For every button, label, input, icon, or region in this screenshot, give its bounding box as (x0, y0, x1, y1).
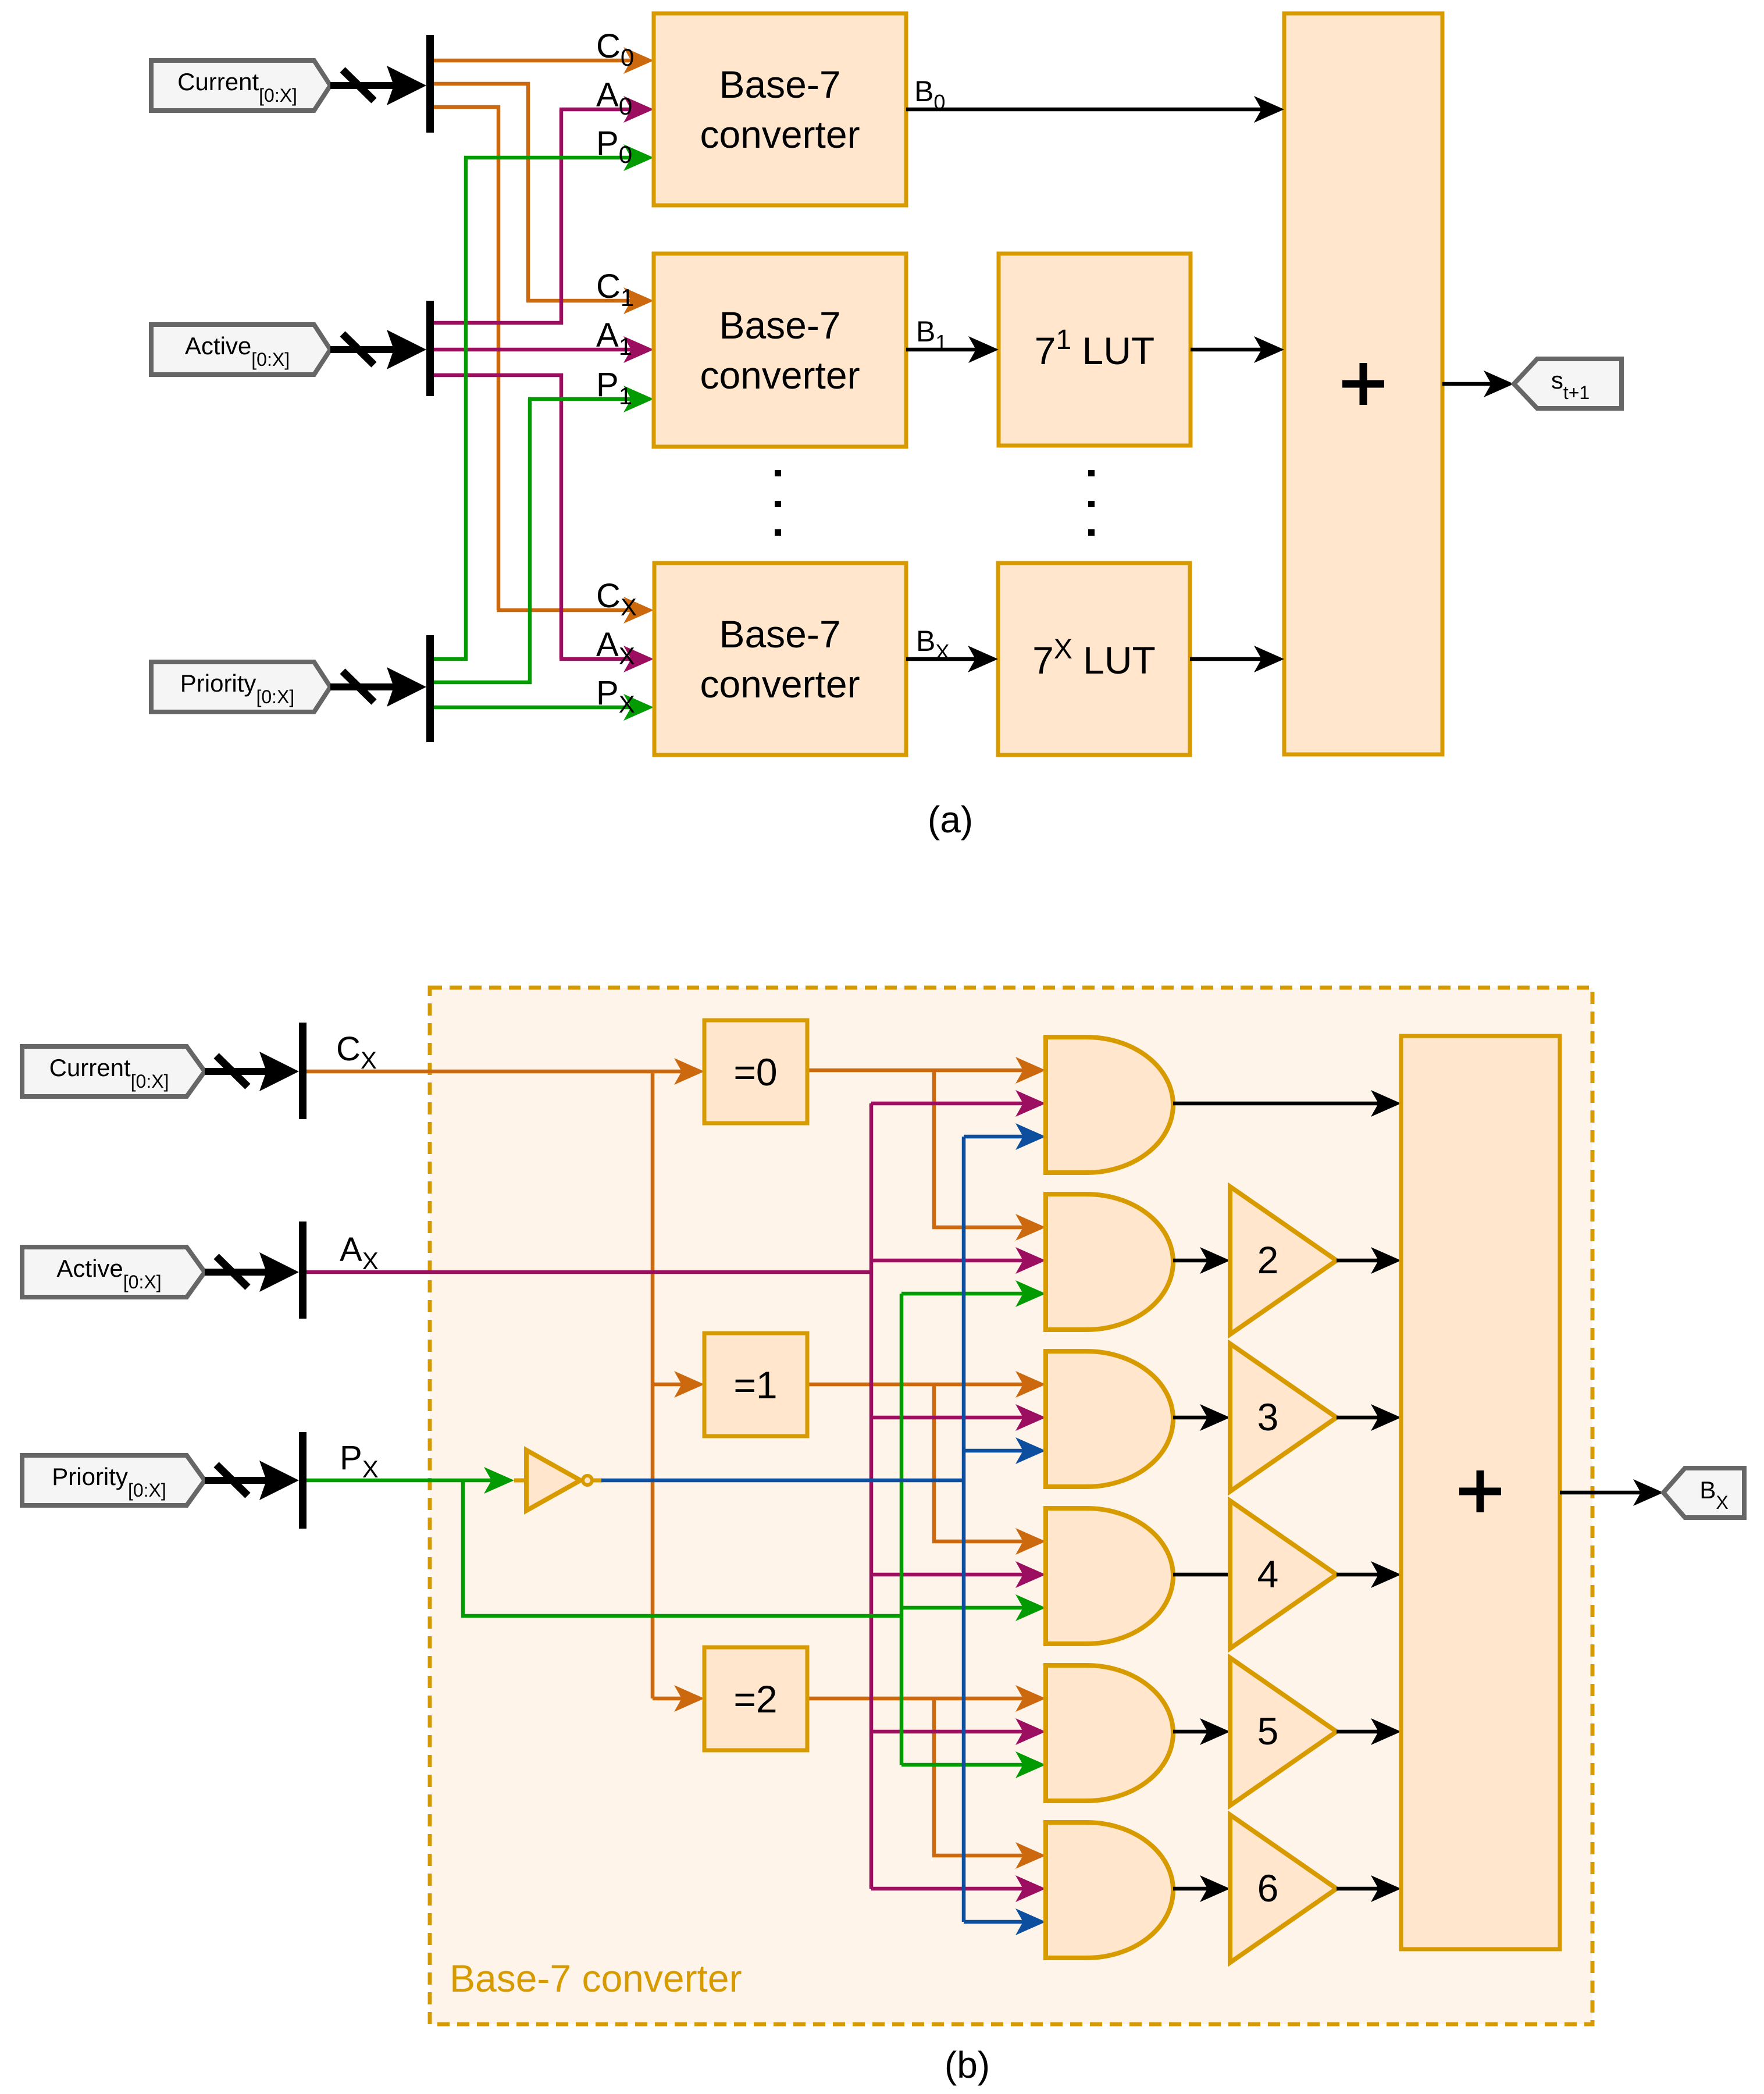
wire AX branch to AND6 (871, 1887, 1025, 1891)
block 7^X LUT (998, 563, 1190, 755)
wire P0 segment (434, 158, 466, 659)
wire PX to NOT gate (307, 1479, 493, 1483)
svg-text:Base-7: Base-7 (719, 63, 840, 106)
wire PX branch to AND4 (901, 1606, 1025, 1610)
wire B1 to LUT1 (906, 348, 978, 352)
wire AX segment (434, 375, 561, 659)
wire =2 out to AND5 (807, 1697, 1025, 1701)
wire C1 segment (434, 84, 528, 301)
wire notP branch to AND1 (964, 1135, 1025, 1139)
wire notP vertical distribution (962, 1137, 966, 1922)
AND gate 3 (1046, 1351, 1173, 1487)
bus bar Current (b) (299, 1023, 307, 1119)
buffer x6 (1230, 1815, 1337, 1963)
bus arrow Priority (a) (330, 683, 398, 690)
svg-text:4: 4 (1257, 1552, 1279, 1596)
wire CX segment (434, 107, 498, 610)
block Base-7 converter X (a) (654, 563, 906, 755)
NOT gate (inverter) (514, 1479, 526, 1483)
wire buffer5 out to adder (1337, 1730, 1380, 1734)
block Base-7 converter 0 (a) (654, 13, 906, 205)
wire =1 branch to AND4 (932, 1384, 936, 1541)
wire =1 out to AND3 (807, 1383, 1025, 1387)
wire =0 branch to AND2 (932, 1070, 936, 1227)
input tag Priority[0:X] (b) (22, 1455, 205, 1505)
svg-text:converter: converter (700, 663, 860, 706)
comparator =1 (704, 1333, 807, 1436)
output tag s_t+1 (1514, 359, 1622, 408)
svg-text:converter: converter (700, 113, 860, 156)
bus bar Active (a) (426, 301, 434, 396)
block adder (a) (1284, 13, 1442, 754)
wire PX branch to AND5 (901, 1763, 1025, 1767)
wire AND6 out to buffer6 (1173, 1887, 1209, 1891)
wire PX (434, 706, 633, 710)
input tag Priority[0:X] (a) (151, 662, 330, 712)
wire AND1 out to adder (1173, 1102, 1380, 1106)
ellipsis dots converters (775, 470, 781, 476)
wire =0 out to AND1 (807, 1069, 1025, 1073)
bus arrow Priority (b) (205, 1477, 271, 1484)
svg-text:Base-7 converter: Base-7 converter (450, 1957, 742, 2000)
buffer x4 (1230, 1501, 1337, 1648)
wire AX branch to AND3 (871, 1416, 1025, 1420)
svg-text:Base-7: Base-7 (719, 304, 840, 347)
input tag Current[0:X] (a) (151, 60, 330, 111)
svg-text:=1: =1 (733, 1363, 777, 1406)
svg-text:71 LUT: 71 LUT (1035, 325, 1154, 372)
wire CX branch down to =2 (651, 1384, 655, 1698)
input tag Current[0:X] (b) (22, 1046, 205, 1096)
wire AX feed (b) (307, 1270, 871, 1274)
plus sign (a) (1342, 363, 1384, 405)
wire AND3 out to buffer3 (1173, 1416, 1209, 1420)
wire PX branch feed (463, 1480, 901, 1616)
wire =2 branch to AND6 (932, 1698, 936, 1856)
wire notP branch to AND3 (964, 1449, 1025, 1453)
wire buffer2 out to adder (1337, 1259, 1380, 1263)
wire BX to LUTX (906, 657, 977, 661)
wire AX branch to AND4 (871, 1573, 1025, 1577)
wire AND2 out to buffer2 (1173, 1259, 1209, 1263)
wire CX branch down to =1 (651, 1071, 655, 1384)
wire AX vertical distribution (869, 1103, 874, 1889)
wire LUT1 to adder (1191, 348, 1263, 352)
comparator =0 (704, 1020, 807, 1123)
input tag Active[0:X] (b) (22, 1247, 205, 1297)
wire buffer4 out to adder (1337, 1573, 1380, 1577)
wire C0 (434, 59, 633, 63)
bus bar Priority (a) (426, 635, 434, 742)
AND gate 2 (1046, 1194, 1173, 1330)
buffer x2 (1230, 1187, 1337, 1334)
svg-text:Base-7: Base-7 (719, 612, 840, 656)
wire CX to =0 (307, 1070, 683, 1074)
ellipsis dots LUTs (1088, 470, 1095, 476)
AND gate 1 (1046, 1037, 1173, 1173)
wire notP branch to AND6 (964, 1920, 1025, 1924)
wire PX branch to AND2 (901, 1292, 1025, 1296)
wire AND5 out to buffer5 (1173, 1730, 1209, 1734)
svg-text:(b): (b) (945, 2044, 990, 2086)
wire P1 segment (434, 399, 530, 682)
wire buffer3 out to adder (1337, 1416, 1380, 1420)
svg-text:5: 5 (1257, 1710, 1279, 1753)
AND gate 4 (1046, 1508, 1173, 1644)
wire adder out to BX (1560, 1491, 1642, 1495)
bus arrow Active (b) (205, 1269, 271, 1276)
buffer x5 (1230, 1658, 1337, 1805)
AND gate 5 (1046, 1665, 1173, 1801)
block adder (b) (1401, 1036, 1560, 1949)
wire AND4 out to buffer4 (1173, 1573, 1230, 1577)
svg-text:=0: =0 (733, 1050, 777, 1094)
bus bar Current (a) (426, 35, 434, 133)
svg-text:6: 6 (1257, 1867, 1279, 1910)
wire A1 (434, 348, 633, 352)
AND gate 6 (1046, 1822, 1173, 1958)
wire PX vertical distribution (900, 1294, 904, 1765)
wire A0 segment (434, 109, 561, 323)
bus bar Priority (b) (299, 1432, 307, 1529)
wire notP feed (601, 1479, 964, 1483)
block Base-7 converter 1 (a) (654, 254, 906, 447)
wire adder output to s_t+1 (1442, 382, 1493, 386)
dashed container Base-7 converter (b) (430, 988, 1592, 2024)
bus bar Active (b) (299, 1221, 307, 1319)
svg-text:3: 3 (1257, 1395, 1279, 1438)
wire AX branch to AND1 (871, 1102, 1025, 1106)
plus sign (b) (1459, 1470, 1501, 1512)
buffer x3 (1230, 1344, 1337, 1491)
svg-text:(a): (a) (928, 799, 973, 841)
bus arrow Current (a) (330, 82, 398, 89)
svg-text:converter: converter (700, 354, 860, 397)
output tag BX (1663, 1468, 1744, 1518)
wire B0 to adder (906, 108, 1263, 112)
wire buffer6 out to adder (1337, 1887, 1380, 1891)
comparator =2 (704, 1647, 807, 1750)
wire LUTX to adder (1190, 657, 1263, 661)
bus arrow Active (a) (330, 346, 398, 353)
svg-text:7X LUT: 7X LUT (1032, 634, 1156, 682)
wire AX branch to AND5 (871, 1730, 1025, 1734)
svg-text:2: 2 (1257, 1238, 1279, 1281)
input tag Active[0:X] (a) (151, 325, 330, 375)
svg-text:=2: =2 (733, 1678, 777, 1721)
wire AX branch to AND2 (871, 1259, 1025, 1263)
block 7^1 LUT (999, 254, 1191, 446)
bus arrow Current (b) (205, 1068, 271, 1075)
